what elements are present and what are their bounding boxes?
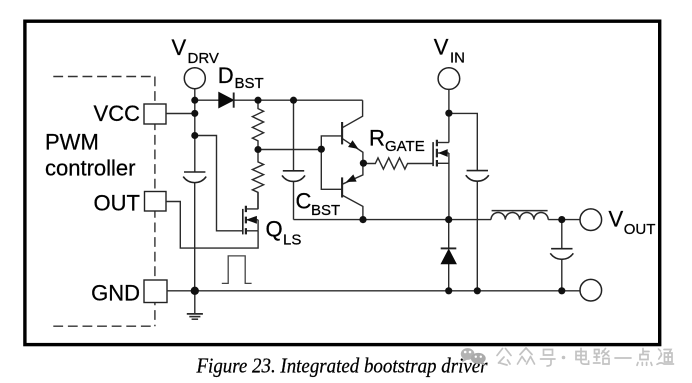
capacitor CBST curved plate — [282, 175, 305, 181]
wire output cap bottom lead — [561, 259, 563, 291]
pin square OUT — [145, 192, 167, 212]
svg-text:LS: LS — [283, 232, 301, 249]
wire CBST top lead — [293, 100, 295, 171]
svg-text:Figure 23. Integrated bootstra: Figure 23. Integrated bootstrap driver — [196, 353, 488, 377]
svg-text:R: R — [369, 126, 385, 151]
node ground diode — [445, 287, 452, 294]
svg-text:OUT: OUT — [94, 191, 140, 216]
wire ground symbol stub — [194, 291, 196, 314]
transistor QHS body arrow — [438, 152, 449, 154]
svg-text:IN: IN — [450, 50, 465, 67]
node SW inductor out — [558, 216, 565, 223]
capacitor VCC plate — [184, 171, 205, 173]
pin square GND — [144, 280, 167, 303]
node base bracket — [318, 146, 325, 153]
transistor NPN base bar — [341, 122, 343, 144]
svg-text:V: V — [609, 207, 624, 232]
wire VIN node to input cap — [449, 113, 477, 170]
wire VIN stem down to high-side drain — [448, 89, 450, 142]
node VCC stub — [191, 110, 198, 117]
diode freewheeling — [441, 250, 456, 264]
pulse waveform symbol — [222, 256, 252, 284]
outer border frame — [25, 21, 660, 344]
arrow NPN emitter — [349, 141, 358, 148]
wire SW node down to diode — [448, 220, 450, 249]
svg-text:PWM: PWM — [45, 130, 99, 155]
svg-text:DRV: DRV — [188, 50, 219, 67]
transistor Q NPN emitter — [342, 138, 363, 163]
node VDRV rail — [191, 97, 198, 104]
wire diode anode to ground rail — [448, 264, 450, 291]
watermark glyph dian (electric) — [576, 348, 589, 364]
node gate drive tap — [191, 132, 198, 139]
node CBST top — [290, 97, 297, 104]
diode freewheeling cathode bar — [441, 247, 457, 249]
node divider top — [254, 97, 261, 104]
node VIN — [445, 110, 452, 117]
capacitor VCC curved plate — [183, 177, 206, 183]
node ground output cap — [558, 287, 565, 294]
terminal VIN — [438, 68, 460, 90]
svg-text:C: C — [296, 189, 312, 214]
node ground main — [191, 287, 199, 295]
wire top bootstrap rail — [195, 99, 363, 101]
transistor QHS drain stub — [437, 142, 449, 144]
diode DBST cathode bar — [233, 93, 235, 108]
wire output cap top lead — [561, 220, 563, 249]
capacitor input curved plate — [466, 175, 489, 181]
wire QLS drain lead — [246, 192, 258, 209]
transistor Q NPN collector — [342, 100, 363, 128]
watermark glyph lu — [594, 349, 610, 365]
watermark glyph dian (dot) — [637, 349, 652, 366]
svg-text:V: V — [434, 35, 449, 60]
watermark glyph zhong — [518, 348, 535, 364]
watermark glyph hao — [541, 350, 556, 367]
transistor QLS channel segments — [245, 206, 247, 235]
wire VDRV stem down through VCC node to cap — [194, 89, 196, 172]
svg-text:V: V — [172, 35, 187, 60]
transistor QLS body arrow — [247, 219, 258, 221]
transistor QHS gate bar — [432, 142, 434, 166]
node divider midpoint — [254, 146, 261, 153]
transistor QHS source stub — [437, 162, 449, 164]
svg-text:OUT: OUT — [624, 221, 656, 238]
terminal VDRV — [184, 68, 205, 89]
watermark wechat icon — [461, 348, 475, 362]
watermark glyph tong — [657, 349, 674, 364]
transistor PNP base bar — [341, 177, 343, 197]
svg-text:GND: GND — [91, 280, 140, 305]
capacitor output plate — [551, 248, 572, 250]
node SW diode top — [445, 216, 452, 223]
arrow PNP emitter — [347, 175, 356, 181]
resistor divider lower — [252, 150, 263, 210]
wire base bracket — [321, 136, 342, 189]
pin square VCC — [144, 104, 166, 124]
PWM controller dashed box — [53, 77, 155, 327]
watermark middle dot — [562, 356, 566, 360]
wire SW rail after inductor to VOUT — [548, 219, 580, 221]
watermark glyph yi — [615, 357, 631, 359]
diode DBST — [219, 92, 234, 107]
wire input cap bottom lead — [476, 181, 478, 291]
resistor RGATE — [363, 158, 433, 169]
node ground input cap — [474, 287, 481, 294]
inductor bar — [492, 210, 548, 212]
wire below VCC cap to ground rail — [194, 183, 196, 291]
wire SW rail — [294, 219, 492, 221]
terminal ground output — [580, 279, 602, 301]
svg-text:VCC: VCC — [94, 101, 141, 126]
transistor Q PNP emitter — [342, 164, 363, 185]
svg-text:Q: Q — [266, 217, 283, 242]
capacitor input plate — [467, 170, 488, 172]
watermark text — [497, 348, 674, 366]
transistor QHS channel segments — [436, 140, 438, 167]
wire OUT pin to QLS source — [166, 202, 258, 249]
svg-text:controller: controller — [45, 156, 135, 181]
svg-text:D: D — [218, 63, 234, 88]
wire divider midpoint to driver bases — [258, 149, 321, 151]
capacitor CBST plate — [283, 170, 304, 172]
svg-text:GATE: GATE — [385, 138, 425, 155]
wire VCC pin stub — [166, 113, 195, 115]
node PNP collector SW — [359, 216, 366, 223]
ground symbol — [187, 314, 203, 319]
inductor L — [491, 212, 548, 219]
transistor Q PNP collector — [342, 195, 363, 220]
wire high-side source column to SW rail — [448, 153, 450, 220]
svg-text:BST: BST — [235, 75, 264, 92]
transistor QLS gate bar — [242, 209, 244, 235]
node driver output — [360, 160, 367, 167]
wire gate drive from VCC node to QLS gate — [195, 136, 243, 231]
watermark glyph gong — [497, 349, 511, 366]
wire CBST bottom lead — [293, 181, 295, 219]
wire ground rail — [167, 290, 581, 292]
resistor divider upper — [252, 100, 263, 149]
wire QLS body-source tie — [246, 220, 258, 231]
capacitor output curved plate — [550, 253, 573, 259]
svg-text:BST: BST — [311, 202, 340, 219]
terminal VOUT — [580, 209, 602, 231]
